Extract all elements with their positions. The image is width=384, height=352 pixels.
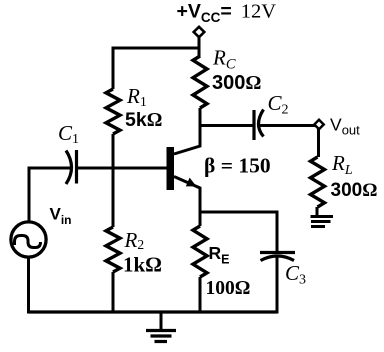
svg-text:300Ω: 300Ω <box>212 72 261 94</box>
svg-text:C1: C1 <box>58 121 79 147</box>
svg-text:C2: C2 <box>268 91 289 118</box>
wire top rail R1-to-RC <box>113 47 199 50</box>
wire RC bottom lead <box>199 108 202 127</box>
svg-text:300Ω: 300Ω <box>331 180 378 201</box>
wire source bottom lead <box>27 257 30 314</box>
ground RL <box>311 207 334 227</box>
svg-text:5kΩ: 5kΩ <box>125 109 162 131</box>
wire R1 bottom lead <box>112 134 115 170</box>
capacitor C3 <box>260 253 295 261</box>
wire R2 top lead <box>112 168 115 227</box>
wire collector lead <box>174 124 200 154</box>
wire R2 bottom lead <box>112 272 115 312</box>
transistor Q1 emitter lead <box>174 177 200 214</box>
svg-text:RE: RE <box>209 243 230 267</box>
resistor RE <box>193 226 207 277</box>
wire bottom rail <box>29 310 278 313</box>
C2 straight plate <box>252 110 255 140</box>
wire base rail <box>77 167 168 170</box>
wire RE bottom lead <box>199 277 202 312</box>
wire output rail left <box>200 124 253 127</box>
svg-text:RC: RC <box>212 46 236 73</box>
transistor Q1 emitter arrowhead <box>186 178 197 187</box>
resistor RC <box>193 56 207 108</box>
svg-text:100Ω: 100Ω <box>206 278 251 299</box>
resistor R2 <box>106 227 120 272</box>
svg-text:+VCC=12V: +VCC=12V <box>177 1 277 26</box>
source Vin (sine) <box>11 222 46 257</box>
node Vout (open diamond terminal) <box>314 120 323 129</box>
C2 curved plate <box>259 110 264 137</box>
svg-text:Vin: Vin <box>50 205 72 228</box>
wire C3 top lead <box>276 211 279 253</box>
wire C3 bottom lead <box>276 257 279 314</box>
C3 curved plate <box>261 256 295 261</box>
wire output rail right <box>260 124 316 127</box>
C1 straight plate <box>75 150 78 184</box>
svg-text:1kΩ: 1kΩ <box>123 253 162 277</box>
resistor RL <box>311 157 325 207</box>
wire VCC stem <box>198 37 201 57</box>
svg-text:C3: C3 <box>285 261 306 288</box>
wire R1 top lead <box>112 47 115 90</box>
wire emitter rail to C3 <box>200 211 279 214</box>
svg-text:RL: RL <box>331 151 353 178</box>
wire RE top lead <box>199 212 202 226</box>
svg-text:β = 150: β = 150 <box>204 154 271 178</box>
svg-text:R1: R1 <box>126 84 147 110</box>
wire input left column <box>28 167 31 223</box>
resistor R1 <box>106 89 120 134</box>
svg-text:Vout: Vout <box>330 115 360 138</box>
svg-text:R2: R2 <box>124 228 145 252</box>
ground main <box>146 312 176 342</box>
wire C1 left lead <box>29 167 70 170</box>
wire RL top lead <box>317 129 320 157</box>
C1 curved plate <box>66 151 72 185</box>
node VCC (open diamond terminal) <box>194 27 205 37</box>
capacitor C1 <box>29 150 77 184</box>
capacitor C2 <box>254 110 264 141</box>
transistor Q1 base bar <box>167 147 175 190</box>
C3 straight plate <box>260 251 295 254</box>
